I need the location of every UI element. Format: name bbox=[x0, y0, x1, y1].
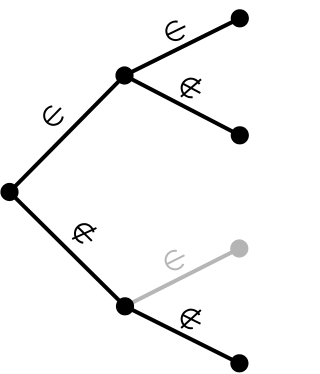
node A1 bbox=[231, 9, 249, 27]
wire root to node B (lower branch) bbox=[10, 192, 126, 306]
wire node A to node A2 bbox=[125, 76, 240, 136]
label ∈ on A-A1 branch bbox=[163, 18, 189, 43]
node B2 bbox=[230, 354, 248, 372]
node B bbox=[116, 297, 134, 315]
wire node B to node B1 (gray branch) bbox=[125, 249, 239, 307]
node root bbox=[0, 183, 18, 201]
node B1 (gray) bbox=[230, 239, 248, 257]
label ∉ on B-B2 branch bbox=[177, 304, 206, 335]
node A2 bbox=[231, 126, 249, 144]
label ∉ on root-B branch bbox=[69, 218, 101, 250]
node A bbox=[115, 66, 133, 84]
wire root to node A (upper branch) bbox=[10, 76, 125, 193]
label ∈ on root-A branch bbox=[40, 101, 67, 128]
wire node B to node B2 bbox=[125, 306, 239, 363]
label ∉ on A-A2 branch bbox=[177, 73, 206, 104]
wire node A to node A1 (top branch) bbox=[125, 18, 240, 75]
label ∈ on B-B1 gray branch bbox=[162, 247, 188, 273]
